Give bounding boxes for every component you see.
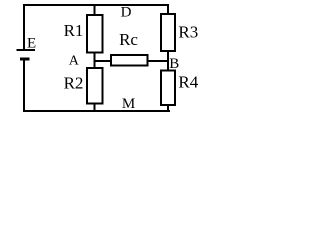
svg-text:R2: R2 [64,74,84,93]
svg-text:B: B [169,56,179,72]
resistor R2 body [87,68,103,104]
wire node A to Rc left lead [94,60,112,62]
wire top rail (node D) [23,4,169,6]
wire R1 to node A [94,52,96,62]
svg-text:E: E [27,36,36,52]
svg-text:R4: R4 [178,73,198,92]
resistor Rc body [111,55,148,66]
svg-text:R1: R1 [64,21,84,40]
wire left rail upper (battery + side) [23,4,25,49]
battery E short plate [20,58,30,61]
wire R4 to bottom rail [167,104,169,111]
svg-text:M: M [122,96,135,112]
wire stub top rail to R1 [94,4,96,15]
wire R3 to node B [167,50,169,62]
svg-text:A: A [69,54,80,69]
resistor R4 body [161,71,175,106]
svg-text:R3: R3 [178,22,198,41]
wire R2 to bottom rail [94,103,96,111]
battery E long plate [17,49,36,51]
svg-text:Rc: Rc [119,30,138,49]
wire left rail lower and bottom rail (node M) [24,61,170,112]
wire node B to R4 [167,60,169,71]
wire stub top rail to R3 [167,4,169,14]
wire node A to R2 [94,60,96,68]
resistor R3 body [161,14,175,51]
wire Rc right lead to node B [147,60,168,62]
svg-text:D: D [121,4,132,20]
resistor R1 body [87,15,103,53]
